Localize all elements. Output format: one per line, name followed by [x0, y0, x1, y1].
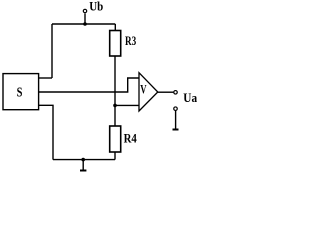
ground stem [82, 160, 84, 170]
resistor R3 [110, 31, 121, 57]
box S [3, 74, 39, 110]
wire S top stub [39, 77, 53, 79]
wire Ub stub [84, 13, 86, 24]
ground stem at Ua [175, 111, 177, 129]
svg-text:R3: R3 [125, 34, 136, 48]
svg-text:S: S [17, 85, 23, 100]
terminal Ub [83, 9, 86, 12]
wire S middle output [39, 78, 140, 92]
node junction divider tap [113, 104, 117, 108]
terminal Ua lower [174, 107, 178, 111]
ground bar main [80, 170, 86, 172]
wire tap to inverting input [115, 104, 139, 106]
wire divider R3-R4 [114, 56, 116, 126]
op-amp V [139, 73, 158, 111]
terminal Ua output [174, 91, 178, 95]
wire left riser [51, 24, 53, 78]
node junction ground rail [81, 158, 85, 162]
wire op-amp output [158, 91, 174, 93]
resistor R4 [110, 126, 121, 152]
svg-text:Ub: Ub [89, 0, 103, 14]
ground bar at Ua [173, 129, 179, 131]
wire bottom rail [53, 159, 115, 161]
wire R3 top lead [114, 24, 116, 31]
svg-text:R4: R4 [124, 132, 138, 146]
node junction Ub rail [83, 22, 87, 26]
wire R4 bottom lead [114, 152, 116, 160]
wire top rail [52, 23, 115, 25]
wire S bottom output [39, 105, 54, 159]
svg-text:V: V [140, 83, 146, 97]
svg-text:Ua: Ua [183, 91, 197, 105]
